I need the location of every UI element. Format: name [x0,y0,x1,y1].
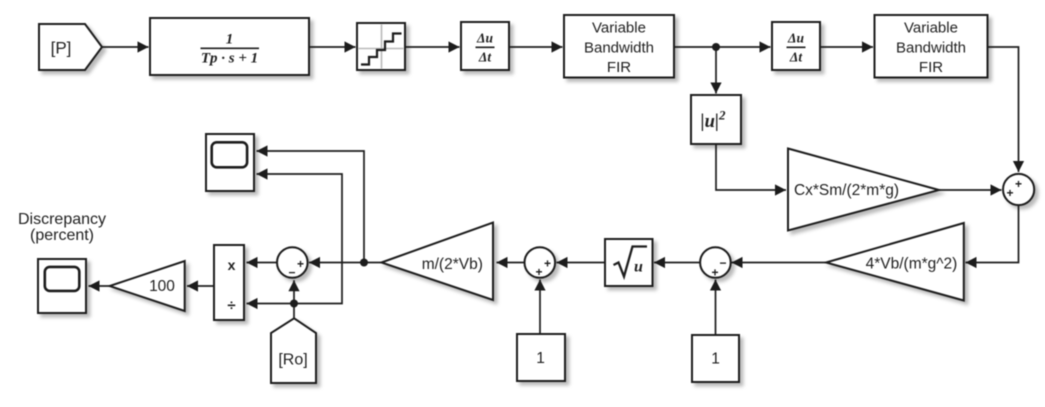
svg-text:+: + [544,257,551,271]
svg-text:+: + [535,265,542,279]
sum block 4 (+-) [277,247,308,279]
svg-text:Bandwidth: Bandwidth [896,40,966,57]
svg-text:u: u [634,259,643,276]
wire junction Ro to scope input 2 [257,168,343,303]
wire gain m to sum 4 [309,257,381,268]
abs-square block |u|^2 [691,95,741,144]
derivative block 1 (du/dt) [461,22,509,70]
variable bandwidth FIR block 2 [875,15,988,78]
wire [P] to transfer function [102,41,149,52]
gain block 4*Vb/(m*g^2) [826,223,964,301]
sum block 1 (++) [1003,174,1034,205]
constant block 1 (lower middle) [517,334,565,381]
svg-text:Δt: Δt [789,50,803,65]
svg-text:Variable: Variable [592,20,646,37]
svg-text:Δu: Δu [476,31,493,46]
junction node Ro [290,300,298,308]
wire junction down to abs-square block [710,47,721,94]
sum block 3 (++) [525,247,556,279]
variable bandwidth FIR block 1 [564,15,674,78]
svg-text:FIR: FIR [607,59,631,76]
svg-text:+: + [1015,177,1022,191]
wire [Ro] up to junction [293,304,295,319]
svg-text:100: 100 [149,278,175,295]
wire junction Ro to sum 4 bottom [288,280,299,303]
from tag [P] [39,24,102,70]
svg-text:Δt: Δt [478,50,492,65]
svg-text:Tp · s + 1: Tp · s + 1 [201,51,258,67]
svg-text:−: − [719,256,726,270]
svg-text:Cx*Sm/(2*m*g): Cx*Sm/(2*m*g) [794,182,899,199]
svg-text:Variable: Variable [904,20,958,37]
svg-text:Discrepancy: Discrepancy [18,211,106,228]
svg-text:+: + [1006,186,1013,200]
wire FIR 1 to derivative 2 [674,41,771,52]
svg-text:[Ro]: [Ro] [278,352,307,369]
svg-text:x: x [228,257,236,273]
junction node after FIR 1 [712,43,720,51]
svg-text:+: + [711,266,718,280]
gain block m/(2*Vb) [381,223,493,301]
wire sum 4 to divide block [247,257,278,268]
wire constant to sum 2 [710,280,721,336]
junction node after gain m [360,259,368,267]
wire sum 2 to sqrt block [654,257,700,268]
constant block 1 (lower right) [692,335,739,382]
svg-text:1: 1 [711,351,720,368]
wire constant to sum 3 [534,280,545,334]
scope block (two inputs) [206,134,254,191]
svg-text:[P]: [P] [51,39,72,58]
svg-text:Bandwidth: Bandwidth [584,40,654,57]
wire divide to gain 100 [187,280,214,291]
wire junction up to scope input 1 [257,145,365,262]
wire derivative 1 to FIR 1 [509,41,563,52]
sum block 2 (-+) [700,247,731,279]
transfer function block 1/(Tp*s+1) [150,18,309,75]
wire sum 1 down to gain 4*Vb [966,205,1019,268]
svg-text:4*Vb/(m*g^2): 4*Vb/(m*g^2) [866,256,958,273]
divide block [214,245,244,320]
svg-text:÷: ÷ [227,297,235,314]
wire transfer function to quantizer [309,41,356,52]
svg-text:−: − [288,266,295,280]
wire quantizer to derivative 1 [405,41,460,52]
svg-text:+: + [297,257,304,271]
wire junction Ro to divide lower input [247,298,295,309]
svg-text:FIR: FIR [919,59,943,76]
discrepancy scope block [38,259,86,313]
svg-text:1: 1 [536,350,545,367]
wire gain 100 to discrepancy scope [89,280,110,291]
square root block sqrt(u) [605,239,653,286]
wire derivative 2 to FIR 2 [820,41,873,52]
label Discrepancy (percent) [18,211,106,244]
svg-text:m/(2*Vb): m/(2*Vb) [422,256,483,273]
gain block 100 [110,261,185,311]
wire gain Cx to sum 1 [939,184,1002,195]
from tag [Ro] [271,318,316,383]
gain block Cx*Sm/(2*m*g) [788,149,939,231]
svg-text:Δu: Δu [787,31,804,46]
wire sum 3 to gain m [497,257,525,268]
quantizer block [357,23,405,70]
wire FIR 2 to sum 1 top [988,47,1025,172]
derivative block 2 (du/dt) [772,22,820,70]
wire sqrt to sum 3 [557,257,606,268]
wire abs-square to gain Cx [716,144,786,196]
svg-text:(percent): (percent) [30,227,94,244]
svg-text:1: 1 [226,32,234,48]
wire gain 4*Vb to sum 2 [732,257,827,268]
